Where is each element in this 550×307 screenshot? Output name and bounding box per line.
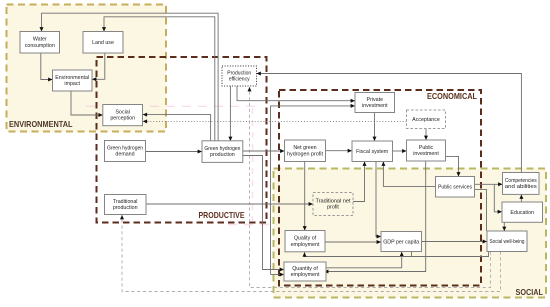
svg-text:Green hydrogen: Green hydrogen <box>107 145 143 151</box>
svg-text:investment: investment <box>413 151 439 157</box>
wire social well-being to production efficiency (delayed) <box>248 87 491 288</box>
svg-text:Public: Public <box>419 145 434 151</box>
svg-text:Water: Water <box>33 37 47 43</box>
wire private investment to fiscal system <box>373 113 377 142</box>
wire water consumption to environmental impact <box>41 53 53 82</box>
svg-text:Traditional net: Traditional net <box>316 198 352 204</box>
svg-text:profit: profit <box>327 205 339 211</box>
node production efficiency <box>222 66 257 86</box>
wire GDP per capita to social well-being <box>422 240 488 244</box>
svg-text:employment: employment <box>291 272 320 278</box>
PRODUCTIVE subsystem border <box>97 57 267 223</box>
wire education to social well-being <box>502 223 506 232</box>
wire net green hydrogen profit to quality of employment <box>303 162 307 231</box>
node traditional net profit <box>313 193 353 216</box>
svg-text:Traditional: Traditional <box>113 199 138 205</box>
svg-text:perception: perception <box>110 116 135 122</box>
svg-text:production: production <box>210 152 235 158</box>
node public investment <box>407 140 446 161</box>
ECONOMICAL subsystem border <box>279 90 481 286</box>
wire production efficiency to green hydrogen production <box>228 86 232 141</box>
wire fiscal system to GDP per capita <box>376 162 381 239</box>
wire production efficiency to private investment <box>237 86 355 103</box>
wire GDP per capita stub to feedback bus <box>411 252 413 257</box>
node GDP per capita <box>381 232 422 252</box>
svg-text:investment: investment <box>362 103 388 109</box>
node quantity of employment <box>284 262 326 281</box>
wire education to competencies and abilities <box>519 195 523 203</box>
wire fiscal system to public investment <box>393 149 407 153</box>
svg-text:GDP per capita: GDP per capita <box>383 239 419 245</box>
decorative pink dashes <box>86 106 277 224</box>
ENVIRONMENTAL subsystem border <box>7 5 167 132</box>
svg-text:Public services: Public services <box>438 185 472 191</box>
SOCIAL subsystem fill <box>274 169 547 298</box>
node education <box>502 202 543 222</box>
svg-text:Quality of: Quality of <box>294 236 317 242</box>
svg-text:Education: Education <box>510 210 534 216</box>
wire green hydrogen production to net green hydrogen profit <box>243 149 285 153</box>
svg-text:production: production <box>113 205 138 211</box>
ENVIRONMENTAL subsystem fill <box>7 5 167 132</box>
wire quality of employment to GDP per capita <box>325 240 381 244</box>
node land use <box>83 32 123 54</box>
svg-text:Social: Social <box>115 110 129 116</box>
wire environmental impact to social perception <box>71 91 103 117</box>
wire land use to environmental impact <box>92 53 105 81</box>
wire public services to competencies and abilities <box>475 182 503 186</box>
wire green hydrogen production to land use <box>102 17 215 141</box>
svg-text:hydrogen profit: hydrogen profit <box>287 151 324 157</box>
svg-text:Net green: Net green <box>293 145 316 151</box>
node green hydrogen demand <box>105 141 146 162</box>
wire traditional production branch to private investment <box>271 104 356 275</box>
svg-text:Competencies: Competencies <box>505 178 537 184</box>
wire social well-being to traditional production (delayed) <box>120 215 501 292</box>
wire traditional production branch to quantity of employment <box>271 273 285 277</box>
node water consumption <box>20 32 60 54</box>
wire green hydrogen production to social perception <box>143 113 211 141</box>
svg-text:employment: employment <box>291 242 320 248</box>
svg-text:ECONOMICAL: ECONOMICAL <box>427 91 477 101</box>
svg-text:Land use: Land use <box>92 40 114 46</box>
svg-text:demand: demand <box>115 152 134 158</box>
node private investment <box>355 93 395 113</box>
node traditional production <box>105 195 147 215</box>
wire public investment to public services <box>446 156 461 176</box>
node net green hydrogen profit <box>285 140 326 162</box>
svg-text:consumption: consumption <box>25 43 55 49</box>
node social well-being <box>487 231 527 252</box>
wire public services to education <box>494 184 502 214</box>
wire public services to fiscal system <box>381 162 435 187</box>
node quality of employment <box>285 231 325 252</box>
node environmental impact <box>53 70 93 91</box>
wire public services to social well-being <box>475 190 487 231</box>
svg-text:ENVIRONMENTAL: ENVIRONMENTAL <box>9 119 73 129</box>
svg-text:Acceptance: Acceptance <box>412 117 440 123</box>
svg-text:impact: impact <box>64 81 80 87</box>
wire net green hydrogen profit to fiscal system <box>326 149 353 153</box>
svg-text:Fiscal system: Fiscal system <box>356 149 389 155</box>
svg-text:Green hydrogen: Green hydrogen <box>204 146 240 152</box>
svg-text:Quantity of: Quantity of <box>292 266 318 272</box>
svg-text:PRODUCTIVE: PRODUCTIVE <box>199 210 245 220</box>
svg-text:Production: Production <box>227 70 251 76</box>
svg-text:Environmental: Environmental <box>55 75 89 81</box>
svg-text:Private: Private <box>367 97 384 103</box>
node competencies and abilities <box>503 173 540 195</box>
wire green hydrogen production to water consumption <box>40 13 219 141</box>
node green hydrogen production <box>202 141 243 163</box>
wire acceptance to social perception (dotted) <box>143 119 407 123</box>
wire green hydrogen demand to green hydrogen production <box>146 150 203 154</box>
wire traditional production to traditional net profit <box>146 202 313 206</box>
wire acceptance to public investment <box>424 129 428 140</box>
wire competencies and abilities to production efficiency <box>257 72 522 173</box>
wire GDP and social well-being to quality of employment <box>303 252 489 257</box>
node acceptance <box>407 110 446 129</box>
svg-text:SOCIAL: SOCIAL <box>516 287 544 297</box>
wire quantity of employment to GDP per capita <box>324 252 404 268</box>
node fiscal system <box>352 141 393 162</box>
wire public investment to quantity of employment <box>324 161 426 274</box>
svg-text:and abilities: and abilities <box>505 184 538 190</box>
wire traditional net profit to fiscal system <box>353 162 367 202</box>
SOCIAL subsystem border <box>274 169 547 298</box>
wire green hydrogen production to quantity of employment <box>243 156 284 272</box>
svg-text:efficiency: efficiency <box>229 77 250 83</box>
svg-text:Social well-being: Social well-being <box>490 239 525 245</box>
node public services <box>436 177 475 198</box>
node social perception <box>103 105 143 126</box>
